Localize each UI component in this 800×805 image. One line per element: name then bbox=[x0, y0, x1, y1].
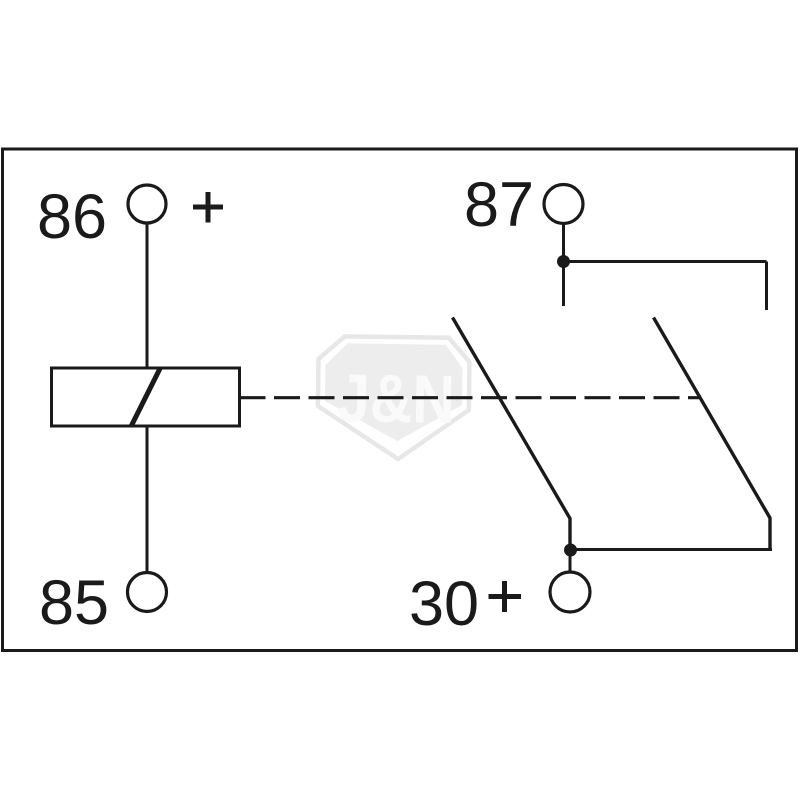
J&N watermark logo bbox=[317, 336, 470, 460]
svg-text:85: 85 bbox=[39, 568, 109, 638]
wire coil to 85 bbox=[146, 426, 149, 573]
terminal 86 bbox=[128, 185, 166, 223]
terminal 85 bbox=[128, 573, 167, 612]
plus polarity at 30 bbox=[489, 581, 522, 612]
switch blade right bbox=[654, 318, 771, 550]
terminal 30 bbox=[550, 572, 590, 612]
wire 87 to junction bbox=[562, 224, 565, 262]
fixed contact stub, right pole bbox=[765, 262, 768, 311]
terminal 87 bbox=[544, 185, 583, 224]
actuation dashed link from coil bbox=[240, 396, 700, 399]
fixed contact stub, left pole bbox=[562, 262, 565, 306]
junction node at 87 bbox=[557, 255, 570, 268]
coil K1 bbox=[52, 368, 240, 426]
bottom wire blades to 30 junction bbox=[570, 548, 772, 551]
svg-text:86: 86 bbox=[37, 182, 107, 252]
switch blade left bbox=[453, 318, 571, 546]
coil slash bbox=[132, 369, 161, 426]
wire 86 to coil bbox=[146, 223, 149, 368]
wire junction to right pole bbox=[564, 260, 767, 263]
svg-text:87: 87 bbox=[464, 170, 534, 240]
plus polarity at 86 bbox=[193, 192, 223, 223]
svg-text:30: 30 bbox=[409, 569, 479, 639]
wire junction to 30 bbox=[569, 550, 572, 573]
junction node at 30 bbox=[564, 544, 577, 557]
